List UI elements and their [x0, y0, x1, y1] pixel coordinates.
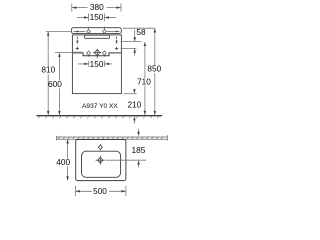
- svg-text:380: 380: [90, 2, 104, 12]
- tap hole diamond right: [103, 30, 107, 34]
- dimension 850: [154, 29, 156, 115]
- dimension 400: [67, 140, 69, 180]
- dimension 150 inner: [78, 61, 112, 67]
- svg-text:185: 185: [131, 145, 145, 155]
- washbasin rim (front view): [72, 28, 122, 34]
- dimension 710: [144, 42, 146, 114]
- tap hole tick right on rim: [103, 27, 105, 30]
- rim centerline right segment: [107, 31, 120, 33]
- svg-text:810: 810: [41, 65, 55, 75]
- extension line 185: [106, 159, 146, 161]
- handle slot: [85, 35, 110, 38]
- floor line: [36, 115, 162, 117]
- tap hole (plan view): [98, 144, 102, 150]
- dimension 58: [134, 30, 136, 56]
- svg-text:58: 58: [136, 27, 146, 37]
- floor hatching: [38, 116, 159, 118]
- dimension 500: [75, 186, 126, 197]
- dimension 210: [133, 89, 135, 91]
- svg-text:710: 710: [137, 76, 151, 86]
- svg-text:A937 Y0 XX: A937 Y0 XX: [82, 103, 118, 110]
- svg-text:150: 150: [90, 59, 104, 69]
- fixing point dot left: [77, 31, 79, 33]
- fixing hole diamond right (shelf): [102, 51, 106, 57]
- rim centerline left segment: [73, 31, 85, 33]
- cabinet front outline: [72, 35, 121, 94]
- shelf / recess line inside cabinet: [73, 53, 121, 56]
- svg-text:600: 600: [48, 79, 62, 89]
- extension line 58 lower: [121, 47, 137, 49]
- extension line 600: [55, 52, 72, 54]
- svg-text:210: 210: [127, 100, 141, 110]
- extension line 850 top: [123, 27, 155, 29]
- fixing point dot right: [116, 31, 118, 33]
- svg-text:850: 850: [147, 64, 161, 74]
- extension line 810: [46, 31, 72, 33]
- extension line 58 upper: [121, 41, 142, 43]
- drain symbol (plan view): [96, 156, 105, 165]
- svg-text:400: 400: [56, 157, 70, 167]
- hidden fixing line left: dash, arrow, cross: [76, 37, 79, 51]
- dimension 600: [58, 53, 60, 114]
- dimension 150 top: [77, 14, 116, 22]
- extension line cabinet bottom (210): [124, 93, 137, 95]
- dimension 380: [72, 4, 121, 12]
- basin outline (plan view): [76, 140, 126, 181]
- svg-text:150: 150: [90, 12, 104, 22]
- wall strip (plan view): [57, 135, 168, 140]
- hidden fixing line right: dash, arrow, cross: [115, 37, 118, 51]
- drain symbol (front view): [93, 49, 101, 58]
- tap hole diamond left: [87, 30, 91, 34]
- fixing hole diamond left (shelf): [87, 51, 91, 57]
- grey stub over shelf left: [73, 51, 82, 53]
- inner bowl (plan view): [82, 151, 121, 177]
- dimension 185: [138, 129, 140, 133]
- dimension 810: [47, 32, 49, 114]
- svg-text:500: 500: [93, 186, 107, 196]
- tap hole tick left on rim: [88, 27, 90, 30]
